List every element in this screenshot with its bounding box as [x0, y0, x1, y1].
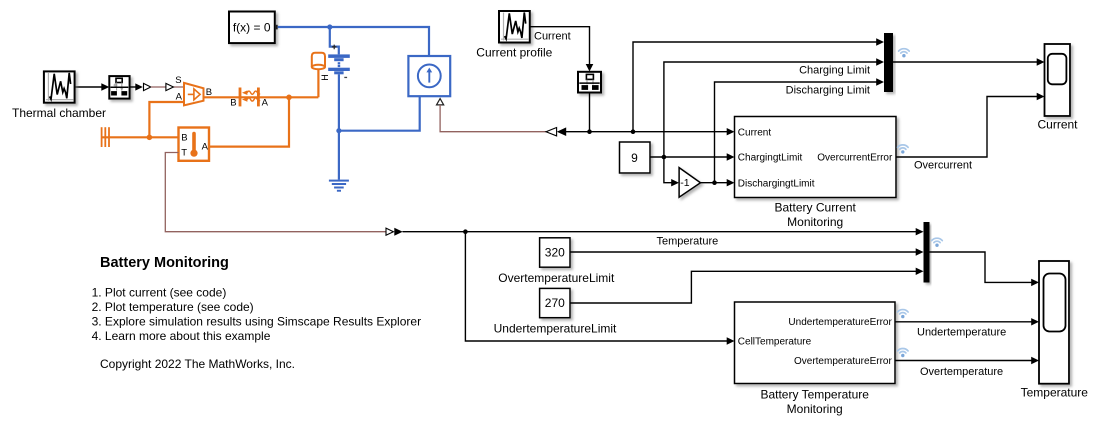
svg-text:-1: -1: [680, 177, 689, 189]
svg-text:Temperature: Temperature: [657, 236, 719, 248]
constant 270: [540, 288, 570, 317]
wire: branch down to gain input: [664, 157, 672, 183]
svg-text:A: A: [176, 92, 183, 103]
adiabatic (insulation) symbol: [101, 127, 103, 147]
svg-text:4. Learn more about this examp: 4. Learn more about this example: [92, 329, 271, 343]
wire: current profile to chart: [530, 27, 590, 64]
wire: thermal chamber to chart: [75, 86, 102, 88]
svg-text:S: S: [175, 75, 181, 86]
svg-text:3. Explore simulation results: 3. Explore simulation results using Sims…: [92, 314, 421, 328]
temperature sensor block: [179, 128, 210, 161]
mux (vertical bar) bottom: [924, 222, 930, 283]
wire: PS control signal: [440, 105, 546, 132]
svg-text:f(x) = 0: f(x) = 0: [233, 20, 271, 34]
chart block (stateflow icon) left: [109, 76, 129, 99]
wire: junction down to battery +: [330, 27, 339, 54]
constant 9: [620, 142, 651, 173]
converter to PS (pointing left): filled arrow + open triangle: [546, 128, 557, 136]
svg-text:Current: Current: [1037, 117, 1078, 131]
logging badge: [899, 49, 910, 58]
Battery Temperature Monitoring subsystem: [735, 302, 896, 384]
gain -1: [679, 168, 700, 198]
wire: battery minus down to ground: [338, 74, 340, 179]
node junction: [662, 155, 667, 160]
minus sign: [344, 77, 347, 78]
wire: solver to current source top: [278, 27, 429, 56]
svg-text:Current profile: Current profile: [476, 45, 552, 59]
controlled temperature source (trapezoid): [184, 83, 204, 106]
svg-text:Overcurrent: Overcurrent: [914, 160, 972, 172]
Temperature scope block: [1039, 261, 1069, 384]
wire: Temperature signal to mux2: [403, 231, 917, 233]
wire: 9 to ChargingtLimit: [650, 156, 727, 158]
wire: mux2 to Temperature scope: [930, 252, 1032, 282]
svg-text:OvercurrentError: OvercurrentError: [817, 153, 893, 164]
battery cell plates: [328, 54, 350, 58]
svg-text:ChargingtLimit: ChargingtLimit: [738, 153, 803, 164]
svg-text:9: 9: [631, 151, 638, 165]
wire: PS signal to S port: [151, 86, 184, 88]
wire: mux to Current scope: [893, 61, 1037, 63]
svg-text:DischargingtLimit: DischargingtLimit: [738, 178, 815, 189]
svg-text:Temperature: Temperature: [1021, 386, 1089, 400]
node junction on orange line: [286, 95, 292, 101]
block Thermal chamber (signal editor): [44, 71, 75, 102]
converter chart to S (simulink-PS): filled arrow + open triangle: [130, 86, 136, 88]
wire: OvercurrentError to scope in2: [896, 97, 1037, 158]
node junction: [327, 24, 332, 29]
svg-text:Battery Current: Battery Current: [775, 201, 857, 215]
wire: gain to DischargingtLimit: [701, 182, 728, 184]
wire: 270 up to mux2 in3: [570, 271, 916, 303]
svg-text:UndertemperatureLimit: UndertemperatureLimit: [494, 321, 617, 335]
node junctions: [587, 129, 592, 134]
svg-text:OvertemperatureLimit: OvertemperatureLimit: [498, 271, 615, 285]
wire: sensor T PS signal: [165, 153, 386, 232]
svg-text:Battery Temperature: Battery Temperature: [760, 388, 869, 402]
svg-text:H: H: [320, 74, 330, 81]
wire: branch up to mux in2: [664, 62, 877, 157]
svg-text:270: 270: [545, 296, 565, 310]
svg-text:CellTemperature: CellTemperature: [738, 337, 812, 348]
node junction: [712, 180, 717, 185]
controlled current source block: [408, 56, 450, 96]
node junction: [463, 229, 468, 234]
svg-text:B: B: [230, 97, 236, 108]
svg-text:B: B: [181, 132, 187, 143]
svg-text:A: A: [262, 97, 269, 108]
wire: chart output down: [589, 93, 591, 132]
svg-text:A: A: [202, 142, 209, 153]
wire: Current signal to monitoring input: [566, 131, 727, 133]
PS arrowhead at S port: [166, 83, 174, 90]
wire: junction up to source A: [149, 102, 184, 137]
svg-text:Battery Monitoring: Battery Monitoring: [100, 255, 229, 271]
wire: branch down to CellTemperature: [465, 232, 727, 341]
svg-text:Discharging Limit: Discharging Limit: [786, 84, 870, 96]
wire: B port to heat transfer and on to H riser: [204, 69, 319, 97]
ground symbol: [329, 180, 349, 182]
wire: branch up to mux in3: [715, 82, 877, 183]
svg-text:T: T: [181, 148, 187, 159]
logging badge: [932, 238, 943, 247]
conductive heat transfer block: [239, 88, 242, 107]
PS control port triangle: [437, 99, 444, 105]
svg-text:Current: Current: [534, 31, 571, 43]
solver f(x)=0 block: [229, 12, 275, 44]
svg-text:Charging Limit: Charging Limit: [799, 64, 870, 76]
wire: UndertemperatureError to scope: [895, 321, 1032, 323]
svg-text:320: 320: [545, 246, 565, 260]
node junction: [336, 128, 341, 133]
block Current profile: [499, 11, 530, 43]
svg-text:Thermal chamber: Thermal chamber: [12, 106, 106, 120]
svg-text:UndertemperatureError: UndertemperatureError: [788, 317, 892, 328]
chart block (stateflow icon) middle: [578, 72, 601, 93]
wire: branch up to mux in1: [633, 42, 877, 132]
svg-text:2. Plot temperature (see code): 2. Plot temperature (see code): [92, 300, 254, 314]
svg-text:Overtemperature: Overtemperature: [920, 366, 1003, 378]
mux (vertical bar) top: [884, 33, 893, 92]
svg-text:Monitoring: Monitoring: [787, 402, 843, 416]
logging badges: [898, 310, 909, 319]
converter PS to simulink: open triangle + filled arrow: [386, 228, 393, 235]
Current scope block: [1045, 44, 1071, 116]
plus sign: [332, 45, 337, 50]
constant 320: [540, 238, 570, 267]
wire: OvertemperatureError to scope: [895, 360, 1032, 362]
wire: junction to current source bottom: [339, 96, 420, 131]
svg-text:1. Plot current (see code): 1. Plot current (see code): [92, 286, 227, 300]
logging badge: [898, 145, 909, 154]
wire: junction down to temperature sensor A: [209, 97, 289, 146]
Battery Current Monitoring subsystem: [735, 117, 897, 198]
svg-text:Undertemperature: Undertemperature: [917, 327, 1006, 339]
wire: 320 to mux2 in2: [570, 251, 916, 253]
svg-text:Current: Current: [738, 127, 772, 138]
wire: insulation to sensor B: [103, 136, 179, 138]
thermal port H (cylinder): [312, 53, 325, 67]
svg-text:Monitoring: Monitoring: [787, 215, 843, 229]
node junction: [147, 135, 153, 141]
svg-text:Copyright 2022 The MathWorks,: Copyright 2022 The MathWorks, Inc.: [100, 357, 295, 371]
svg-text:OvertemperatureError: OvertemperatureError: [794, 356, 892, 367]
